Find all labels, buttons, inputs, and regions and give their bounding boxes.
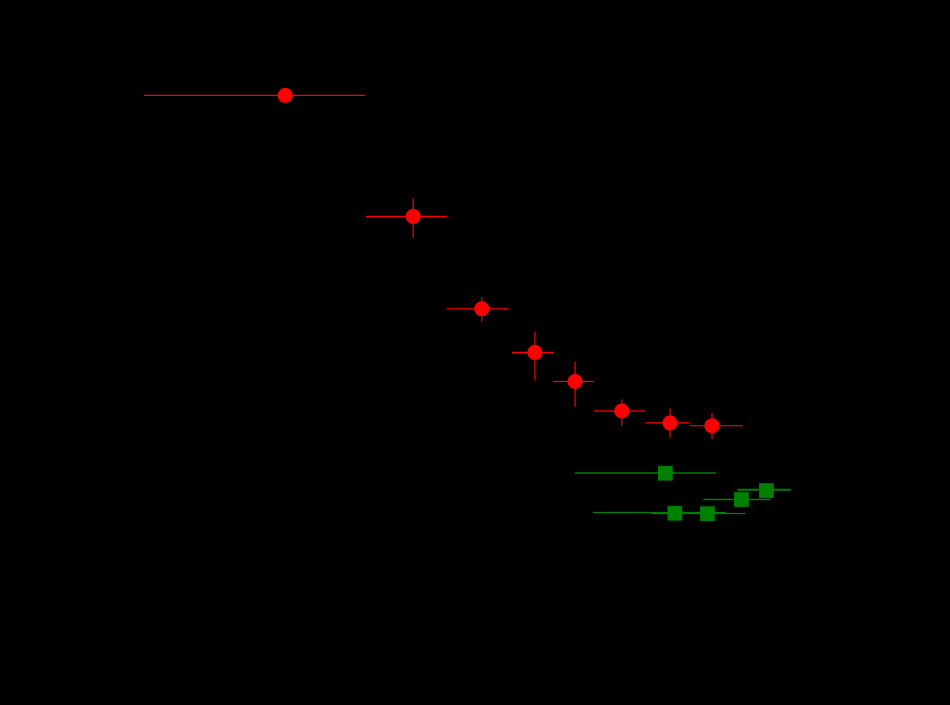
red data point P5 bbox=[568, 374, 583, 389]
red data point P4 bbox=[527, 345, 542, 360]
green graph error bar G3 horizontal bbox=[703, 499, 770, 501]
red graph error bar P7 horizontal bbox=[645, 422, 689, 424]
red graph error bar P5 horizontal bbox=[553, 381, 594, 383]
red graph error bar P6 horizontal bbox=[594, 410, 646, 412]
red graph error bar P2 horizontal bbox=[366, 215, 447, 217]
red data point P1 bbox=[278, 88, 293, 103]
red data point P3 bbox=[474, 301, 489, 316]
green graph error bar G2 horizontal bbox=[737, 489, 791, 491]
red data point P2 bbox=[406, 209, 421, 224]
red graph error bar P8 horizontal bbox=[689, 425, 742, 427]
red graph error bar P4 vertical bbox=[534, 332, 536, 381]
red graph error bar P4 horizontal bbox=[512, 351, 554, 353]
green graph error bar G4 horizontal bbox=[593, 512, 726, 514]
red graph error bar P1 horizontal bbox=[144, 94, 365, 96]
red graph error bar P3 horizontal bbox=[446, 308, 509, 310]
red graph error bar P6 vertical bbox=[621, 399, 623, 425]
red graph error bar P8 vertical bbox=[711, 413, 713, 439]
red graph error bar P7 vertical bbox=[669, 408, 671, 438]
green data point G2 bbox=[759, 483, 774, 498]
green data point G3 bbox=[734, 492, 749, 507]
green graph error bar G5 horizontal bbox=[651, 513, 746, 515]
green data point G4 bbox=[668, 506, 683, 521]
red data point P8 bbox=[705, 418, 720, 433]
red graph error bar P5 vertical bbox=[574, 362, 576, 407]
red graph error bar P3 vertical bbox=[481, 297, 483, 321]
green graph error bar G1 horizontal bbox=[575, 472, 716, 474]
red graph error bar P2 vertical bbox=[412, 199, 414, 238]
red data point P6 bbox=[614, 404, 629, 419]
red data point P7 bbox=[663, 415, 678, 430]
green data point G5 bbox=[700, 506, 715, 521]
green data point G1 bbox=[658, 466, 673, 481]
